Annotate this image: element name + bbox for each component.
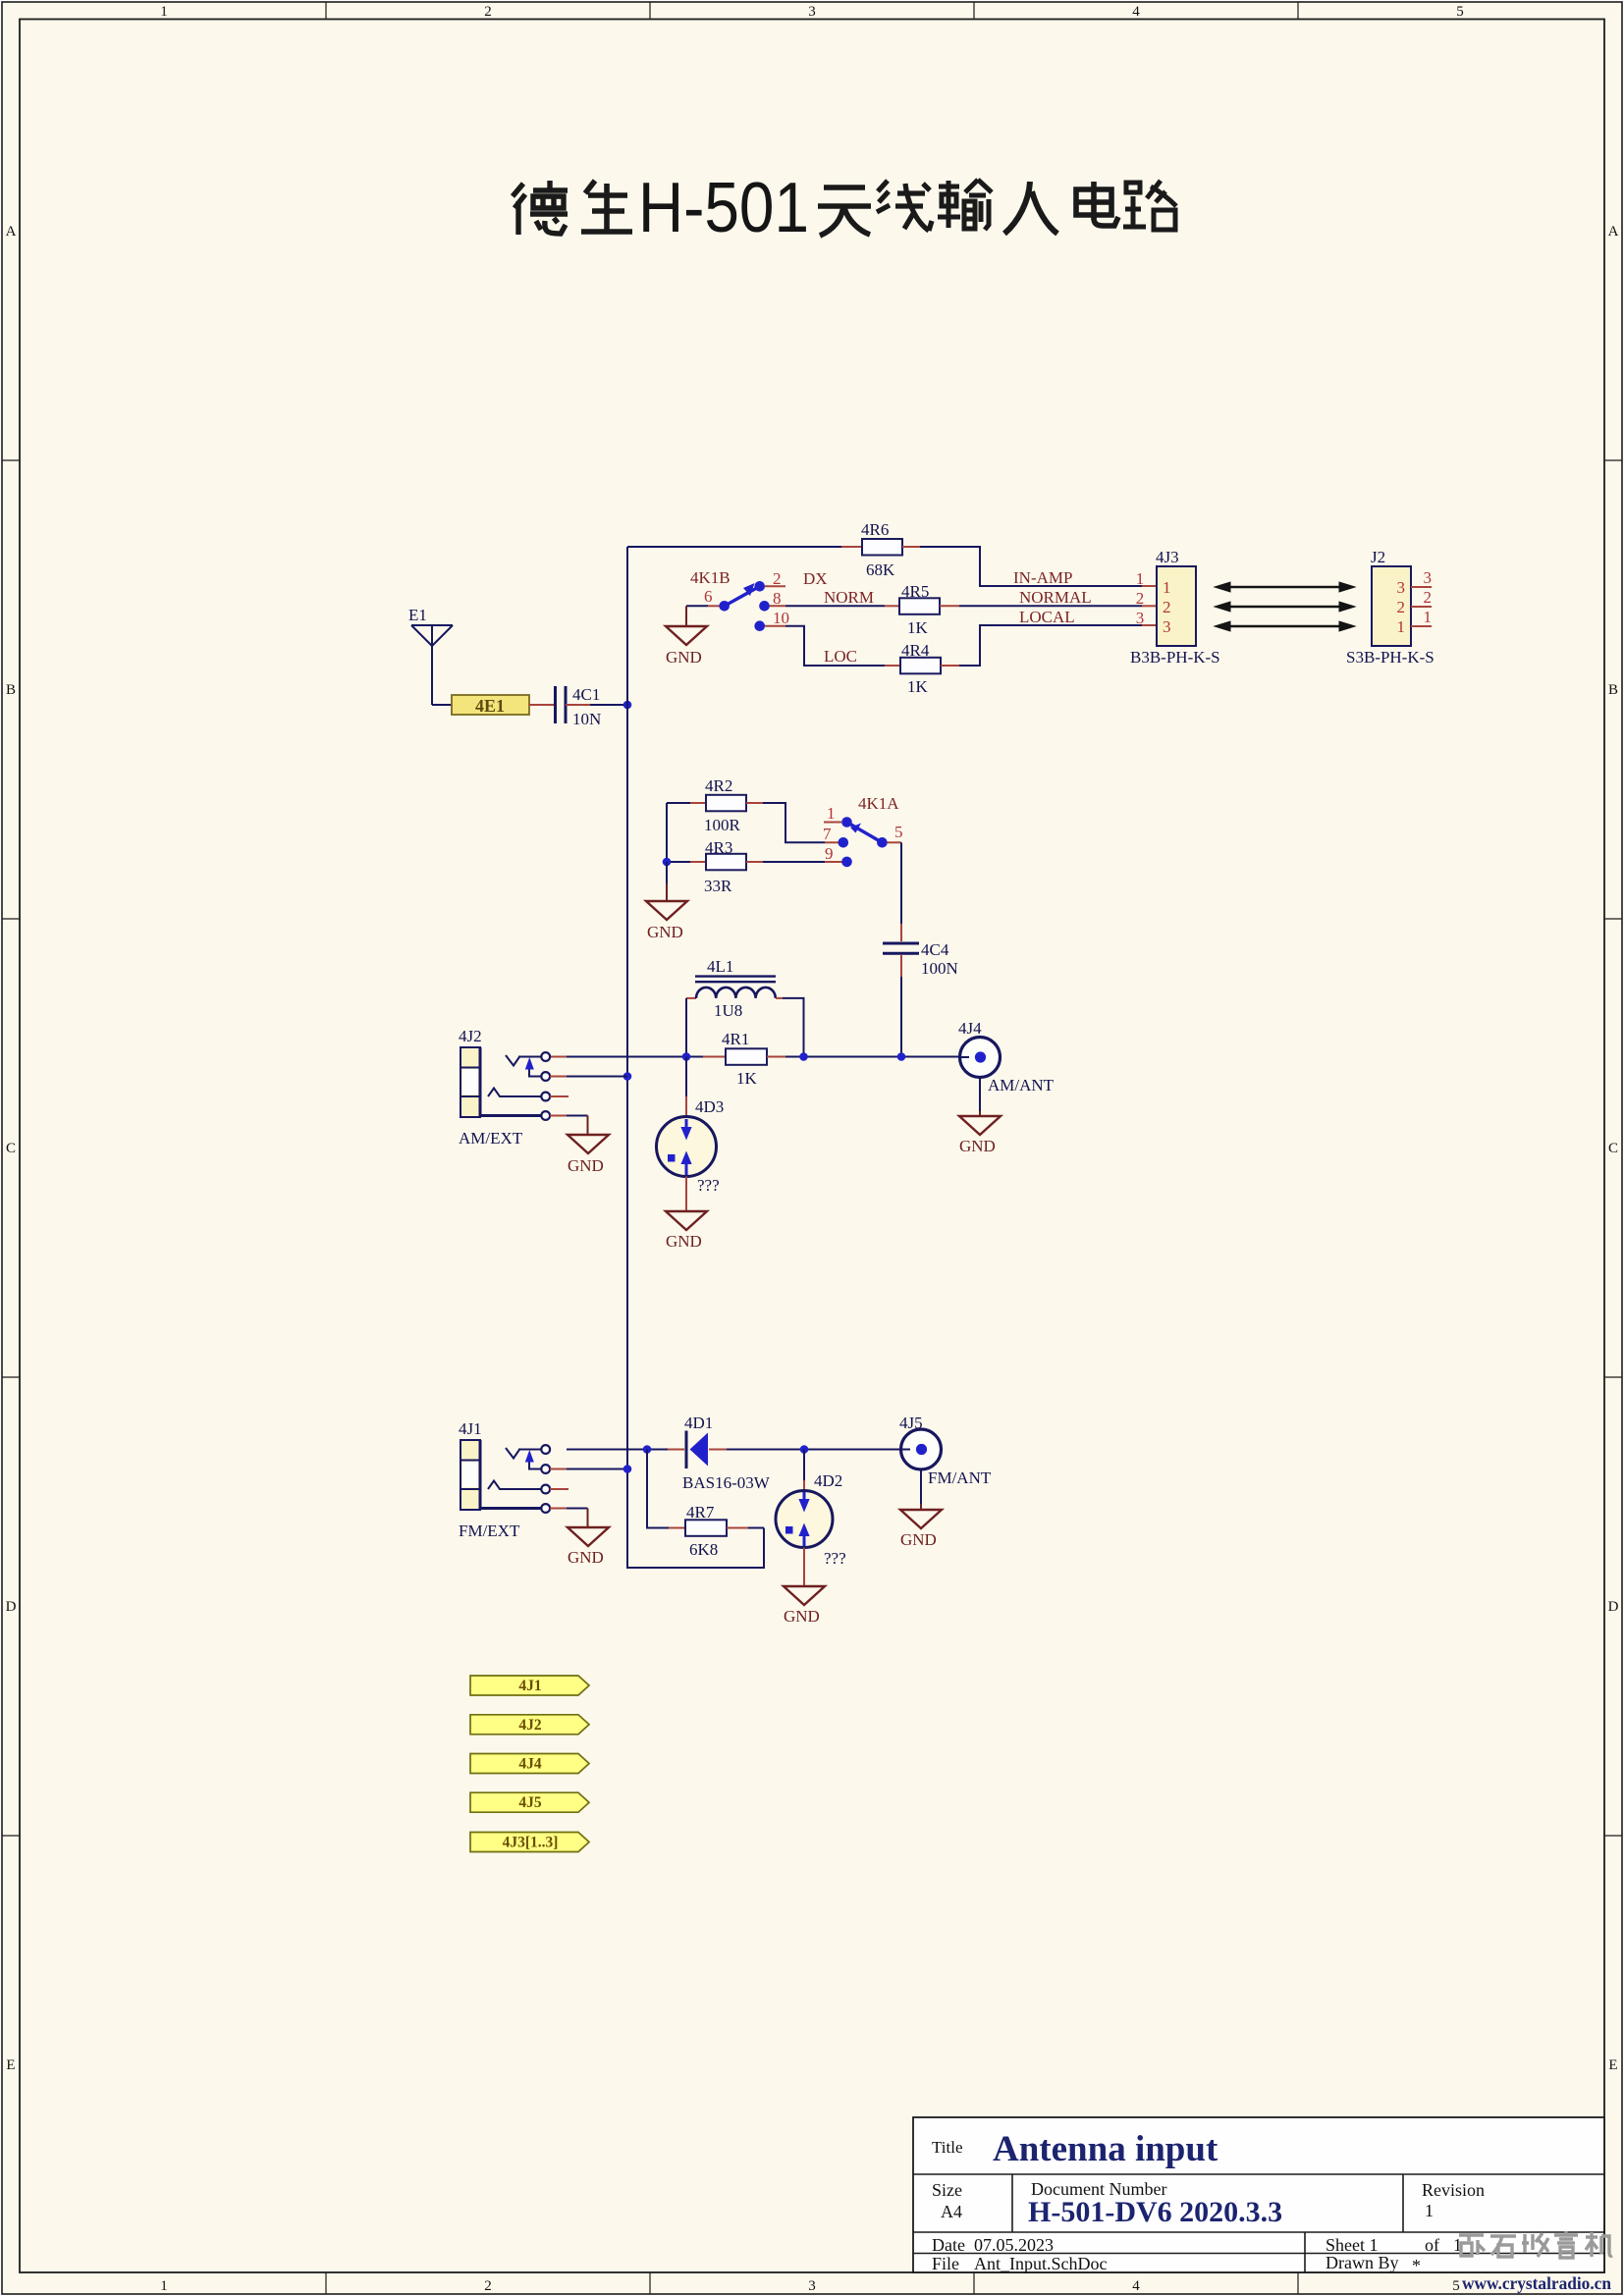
bus arrows 4J3 to J2 (1215, 582, 1355, 631)
wire 4J2 switch contact to bus (550, 1076, 567, 1078)
svg-text:Date: Date (932, 2235, 965, 2255)
svg-text:GND: GND (959, 1137, 996, 1155)
wire 4J2 ring stub (550, 1095, 568, 1097)
svg-text:1K: 1K (736, 1069, 758, 1088)
svg-text:www.crystalradio.cn: www.crystalradio.cn (1462, 2273, 1611, 2293)
wire 4J1 sleeve to ground (550, 1508, 567, 1510)
svg-text:E: E (1608, 2057, 1617, 2073)
svg-text:Size: Size (932, 2180, 962, 2200)
port flag 4J3[1..3] (470, 1833, 589, 1852)
svg-text:D: D (6, 1599, 17, 1615)
svg-text:FM/ANT: FM/ANT (928, 1468, 992, 1487)
ferrite bead 4E1 (452, 695, 529, 716)
svg-text:Drawn By: Drawn By (1326, 2253, 1399, 2272)
resistor 4R6 (861, 520, 902, 579)
wire 4J1 switch contact to bus (550, 1468, 567, 1470)
capacitor 4C4 (883, 940, 958, 978)
svg-text:3: 3 (1424, 568, 1433, 587)
svg-text:4R5: 4R5 (901, 582, 929, 601)
svg-text:GND: GND (900, 1530, 937, 1549)
wire 4D1 to 4J5 (709, 1449, 727, 1451)
resistor 4R2 (690, 776, 763, 834)
wire 4J1 ring stub (550, 1488, 568, 1490)
svg-text:1: 1 (160, 2278, 168, 2294)
svg-text:BAS16-03W: BAS16-03W (682, 1473, 771, 1492)
switch 4K1A (823, 794, 903, 867)
port flag 4J4 (470, 1754, 589, 1774)
ground GND 4J2 (568, 1116, 609, 1176)
svg-text:4J1: 4J1 (518, 1678, 541, 1694)
wire 4R6 to IN-AMP (902, 546, 920, 548)
svg-text:2: 2 (773, 569, 782, 588)
svg-text:A4: A4 (941, 2202, 962, 2221)
svg-text:4C4: 4C4 (921, 940, 949, 959)
svg-text:Antenna input: Antenna input (993, 2129, 1218, 2169)
svg-text:2: 2 (484, 4, 492, 20)
svg-text:100N: 100N (921, 959, 958, 978)
svg-text:4D2: 4D2 (814, 1471, 842, 1490)
wire attenuator left branch (667, 803, 690, 862)
wire 4L1 legs (686, 998, 804, 1057)
svg-text:E1: E1 (408, 606, 427, 624)
svg-text:D: D (1608, 1599, 1619, 1615)
svg-text:1: 1 (1425, 2201, 1434, 2220)
svg-text:2: 2 (484, 2278, 492, 2294)
svg-text:6K8: 6K8 (689, 1540, 718, 1559)
RF connector 4J5 (899, 1414, 992, 1487)
svg-text:IN-AMP: IN-AMP (1013, 568, 1072, 587)
ground GND 4D2 (784, 1586, 825, 1626)
svg-text:H-501: H-501 (638, 169, 809, 247)
svg-text:1U8: 1U8 (714, 1001, 742, 1020)
svg-text:10: 10 (773, 609, 789, 627)
jack 4J2 (459, 1027, 550, 1148)
wire 4J2 sleeve to ground (550, 1115, 567, 1117)
svg-text:4J4: 4J4 (958, 1019, 982, 1038)
wire 4R1 to 4J4 (785, 1056, 959, 1058)
svg-text:H-501-DV6 2020.3.3: H-501-DV6 2020.3.3 (1028, 2196, 1282, 2228)
svg-text:1: 1 (160, 4, 168, 20)
wire 4E1 to 4C1 (529, 704, 554, 706)
svg-text:100R: 100R (704, 816, 741, 834)
ground GND 4J5 (900, 1510, 942, 1549)
ground GND 4J1 (568, 1509, 609, 1568)
port flag 4J5 (470, 1792, 589, 1812)
junction AM nodes (682, 1052, 691, 1061)
wire 4C1 to bus (566, 704, 590, 706)
svg-text:LOC: LOC (824, 647, 857, 666)
svg-text:C: C (1608, 1141, 1618, 1156)
svg-text:4E1: 4E1 (475, 696, 505, 716)
connector 4J3 (1130, 548, 1220, 667)
switch 4K1B (690, 568, 789, 631)
svg-text:???: ??? (824, 1549, 846, 1568)
ground GND 4J4 (959, 1116, 1001, 1155)
svg-text:A: A (6, 224, 17, 240)
wire pin6 to ground (686, 605, 708, 607)
svg-text:2: 2 (1163, 598, 1171, 616)
svg-text:4D3: 4D3 (695, 1097, 724, 1116)
junction antenna node (623, 701, 632, 710)
svg-text:4R7: 4R7 (686, 1503, 715, 1522)
title block (913, 2117, 1604, 2275)
svg-text:4R6: 4R6 (861, 520, 889, 539)
jack 4J1 (459, 1419, 550, 1540)
svg-text:B: B (1608, 682, 1618, 698)
svg-text:Title: Title (932, 2138, 963, 2157)
wire 4R3 to pin9 (763, 861, 825, 863)
svg-text:2: 2 (1424, 588, 1433, 607)
svg-text:???: ??? (697, 1176, 720, 1195)
svg-text:Sheet 1: Sheet 1 (1326, 2235, 1379, 2255)
svg-text:GND: GND (784, 1607, 820, 1626)
svg-text:4L1: 4L1 (707, 957, 733, 976)
watermark 矿石收音机 (1459, 2231, 1612, 2258)
wire main antenna bus (627, 547, 764, 1568)
svg-text:4J3[1..3]: 4J3[1..3] (503, 1835, 559, 1851)
resistor 4R7 (669, 1503, 748, 1559)
svg-text:1K: 1K (907, 677, 929, 696)
ground GND 4K1B (666, 606, 707, 667)
svg-text:E: E (6, 2057, 15, 2073)
svg-text:7: 7 (823, 825, 832, 843)
svg-text:68K: 68K (866, 561, 895, 579)
junction FM nodes (643, 1445, 652, 1454)
antenna E1 (408, 606, 453, 705)
svg-text:4R1: 4R1 (722, 1030, 749, 1048)
svg-text:6: 6 (704, 587, 713, 606)
resistor 4R5 (899, 582, 940, 637)
svg-text:GND: GND (666, 1232, 702, 1251)
capacitor 4C1 (556, 685, 602, 728)
svg-text:5: 5 (1456, 4, 1464, 20)
inductor 4L1 (686, 957, 783, 1020)
resistor 4R4 (900, 641, 941, 696)
wire 4R7 to bus loop (748, 1527, 764, 1529)
svg-text:Revision: Revision (1422, 2180, 1485, 2200)
svg-text:4J3: 4J3 (1156, 548, 1179, 566)
svg-text:4J2: 4J2 (518, 1717, 542, 1734)
svg-text:NORMAL: NORMAL (1019, 588, 1092, 607)
svg-text:AM/ANT: AM/ANT (988, 1076, 1055, 1095)
svg-text:4R4: 4R4 (901, 641, 930, 660)
svg-text:4J5: 4J5 (518, 1794, 542, 1811)
svg-text:4R3: 4R3 (705, 838, 732, 857)
svg-text:S3B-PH-K-S: S3B-PH-K-S (1346, 648, 1435, 667)
wire 4R7 branch (647, 1450, 669, 1528)
svg-text:B: B (6, 682, 16, 698)
title 德生H-501天线输入电路 (513, 169, 1176, 247)
svg-text:3: 3 (808, 4, 816, 20)
svg-text:3: 3 (1397, 578, 1406, 597)
svg-text:9: 9 (825, 844, 834, 863)
svg-text:10N: 10N (572, 710, 601, 728)
svg-text:4D1: 4D1 (684, 1414, 713, 1432)
wire 4R5 to 4J3 pin2 (NORMAL) (940, 605, 959, 607)
wire 4J5 to ground (920, 1469, 922, 1504)
svg-text:LOCAL: LOCAL (1019, 608, 1075, 626)
svg-text:GND: GND (568, 1548, 604, 1567)
svg-text:2: 2 (1397, 598, 1406, 616)
svg-text:4R2: 4R2 (705, 776, 732, 795)
svg-text:4J2: 4J2 (459, 1027, 482, 1045)
svg-text:4J1: 4J1 (459, 1419, 482, 1438)
svg-text:4K1B: 4K1B (690, 568, 731, 587)
svg-text:3: 3 (1136, 609, 1145, 627)
svg-text:1: 1 (1136, 569, 1145, 588)
wire pin5 to 4C4 (900, 842, 902, 924)
resistor 4R3 (690, 838, 763, 895)
wire pin8 to 4R5 (NORM) (785, 605, 885, 607)
diode 4D1 (682, 1414, 771, 1492)
svg-text:33R: 33R (704, 877, 732, 895)
svg-text:GND: GND (666, 648, 702, 667)
ESD protector 4D2 (776, 1450, 846, 1569)
svg-text:3: 3 (1163, 617, 1171, 636)
svg-text:C: C (6, 1141, 16, 1156)
svg-text:DX: DX (803, 569, 828, 588)
ESD protector 4D3 (657, 1057, 725, 1196)
wire FM line (567, 1449, 668, 1451)
svg-text:3: 3 (808, 2278, 816, 2294)
RF connector 4J4 (958, 1019, 1055, 1095)
svg-text:1: 1 (1424, 608, 1433, 626)
svg-text:Ant_Input.SchDoc: Ant_Input.SchDoc (974, 2254, 1107, 2273)
svg-text:2: 2 (1136, 589, 1145, 608)
svg-text:1K: 1K (907, 618, 929, 637)
svg-text:4K1A: 4K1A (858, 794, 899, 813)
wire AM line (550, 1056, 567, 1058)
svg-text:GND: GND (647, 923, 683, 941)
svg-text:5: 5 (894, 823, 903, 841)
svg-text:*: * (1412, 2256, 1421, 2275)
port flag 4J2 (470, 1715, 589, 1735)
svg-text:NORM: NORM (824, 588, 874, 607)
wire 4C4 to AM line (900, 955, 902, 977)
svg-text:J2: J2 (1371, 548, 1385, 566)
port flag 4J1 (470, 1676, 589, 1695)
wire pin10 to 4R4 (LOC) (785, 626, 885, 666)
wire 4D2 to ground (803, 1548, 805, 1587)
wire bus top to 4R6 (627, 546, 841, 548)
svg-text:B3B-PH-K-S: B3B-PH-K-S (1130, 648, 1220, 667)
svg-text:1: 1 (827, 804, 836, 823)
svg-text:of: of (1425, 2235, 1439, 2255)
svg-text:8: 8 (773, 589, 782, 608)
ground GND 4D3 (666, 1211, 707, 1251)
svg-text:4C1: 4C1 (572, 685, 600, 704)
svg-text:File: File (932, 2254, 959, 2273)
wire 4J4 to ground (979, 1078, 981, 1112)
svg-text:A: A (1608, 224, 1619, 240)
svg-text:4: 4 (1132, 4, 1140, 20)
svg-text:1: 1 (1397, 617, 1406, 636)
connector J2 (1346, 548, 1435, 667)
svg-text:1: 1 (1163, 578, 1171, 597)
svg-text:07.05.2023: 07.05.2023 (974, 2235, 1054, 2255)
resistor 4R1 (703, 1030, 785, 1088)
svg-text:AM/EXT: AM/EXT (459, 1129, 523, 1148)
svg-text:5: 5 (1452, 2278, 1460, 2294)
ground GND attenuator (646, 862, 687, 941)
svg-text:4: 4 (1132, 2278, 1140, 2294)
svg-text:GND: GND (568, 1156, 604, 1175)
wire 4R2 to pin7 (763, 803, 825, 842)
wire 4D3 to ground (685, 1177, 687, 1212)
svg-text:FM/EXT: FM/EXT (459, 1522, 520, 1540)
svg-text:4J4: 4J4 (518, 1756, 542, 1773)
wire 4R4 to 4J3 pin3 (LOCAL) (941, 665, 959, 667)
junction attenuator gnd node (663, 858, 672, 867)
